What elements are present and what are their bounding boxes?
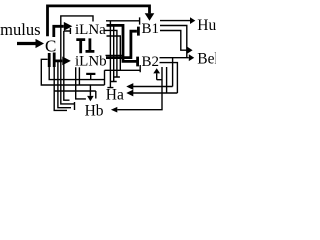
wire C to iLNb thick arrow — [54, 53, 62, 68]
wire B2 lower output down to Ha lower arrow — [160, 63, 178, 93]
svg-text:Stimulus: Stimulus — [0, 20, 40, 39]
svg-text:C: C — [45, 36, 56, 55]
wire thin line with tick under B2 — [105, 65, 141, 72]
wire line under iLNb with up T-bar — [49, 67, 104, 80]
wire junction on Be line down to Ha upper arrow — [133, 58, 173, 87]
svg-text:Humoral: Humoral — [197, 17, 216, 34]
wire mutual inhibition T symbols between iLNa and iLNb — [76, 38, 94, 53]
wire C down to Hb down-arrow — [54, 67, 96, 99]
svg-text:iLNb: iLNb — [75, 53, 107, 69]
wire B1 to Humoral arrow — [160, 20, 190, 22]
wire thick stub below C left — [48, 53, 51, 67]
wire iLNa thick inhibit B2 (cross down) — [107, 25, 138, 66]
wire nested corner x57.9 — [58, 62, 71, 108]
wire C to iLNa thick arrow — [54, 26, 64, 37]
wire B2 to Behavior arrow — [160, 57, 189, 59]
wire left tick inhibit iLNa and long drop x63.8 — [64, 28, 71, 100]
wire box edge around iLN pair with bottom-left nested corner — [61, 16, 93, 110]
wire C to B1 thick elbow arrow — [48, 6, 150, 36]
wire nested corner x54.2 bottom — [54, 91, 67, 110]
wire iLNa thin inhibit B1 — [106, 17, 140, 24]
svg-text:Ha: Ha — [106, 87, 124, 104]
wire vertical below iLNb to corner above Hb — [76, 67, 86, 99]
wire B2 bottom drop to long bottom arrow — [117, 67, 162, 110]
wire B1 second output down joining Be line — [160, 26, 187, 58]
wire iLNa outputs descending to Ha T-bars — [105, 21, 121, 88]
wire left feedback riser — [41, 59, 104, 85]
wire short vertical below iLNb — [78, 67, 80, 85]
wire B1 third output down to upper Be arrow — [160, 31, 187, 51]
wire up arrow into B2 bottom — [157, 73, 162, 79]
svg-text:iLNa: iLNa — [75, 22, 106, 38]
svg-text:Hb: Hb — [85, 103, 104, 120]
svg-text:B1: B1 — [142, 21, 160, 37]
wire iLNb thin stub — [106, 54, 123, 56]
svg-text:Behavior: Behavior — [197, 50, 216, 67]
wire iLNb thick inhibit B1 (cross up) — [106, 27, 138, 58]
wire stimulus arrow into C — [17, 42, 36, 45]
svg-text:B2: B2 — [142, 54, 160, 70]
wire B2 bottom drop joining Ha lower line — [166, 67, 168, 93]
wire Ha lower feedback arrow — [133, 92, 178, 94]
